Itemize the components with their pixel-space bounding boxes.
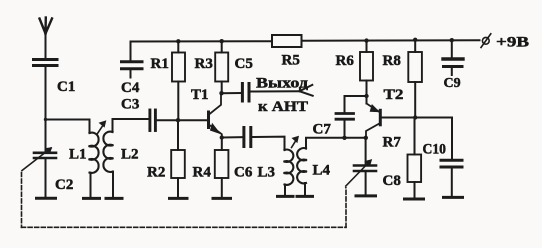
- svg-text:R4: R4: [193, 165, 212, 181]
- trimmer capacitor C8: [346, 138, 401, 189]
- inductor L2: [103, 132, 138, 172]
- svg-text:T2: T2: [384, 87, 404, 103]
- svg-text:L1: L1: [69, 147, 87, 163]
- capacitor C5: [222, 56, 253, 101]
- capacitor C3: [121, 97, 155, 131]
- svg-text:+9В: +9В: [496, 35, 529, 51]
- resistor R8: [383, 38, 422, 118]
- svg-text:C1: C1: [57, 79, 75, 95]
- svg-text:R8: R8: [383, 53, 401, 69]
- svg-text:C8: C8: [383, 173, 401, 189]
- capacitor C4: [121, 42, 142, 97]
- transistor T2: [366, 87, 415, 138]
- svg-text:R1: R1: [151, 56, 169, 72]
- dashed gang line C2 to C8: [22, 173, 347, 228]
- output fork to antenna: [251, 76, 313, 116]
- resistor R4: [193, 138, 229, 198]
- capacitor C1: [34, 60, 76, 96]
- svg-text:C9: C9: [444, 76, 461, 91]
- wire C6 to L3: [252, 137, 284, 150]
- ground under C2: [37, 159, 56, 198]
- svg-text:C6: C6: [234, 165, 253, 181]
- svg-text:C7: C7: [313, 122, 332, 138]
- svg-text:к АНТ: к АНТ: [258, 99, 308, 115]
- tuning arrow L3-L4: [292, 137, 299, 148]
- ground under L3: [278, 185, 294, 197]
- ground under R7: [405, 198, 424, 201]
- svg-text:C3: C3: [121, 97, 139, 113]
- node dot R6/C7/T2 emitter: [364, 94, 368, 98]
- wire C3 to T1 base: [157, 119, 208, 121]
- power rail left section: [131, 40, 273, 42]
- node dot T1 emitter/C6/R4: [220, 135, 224, 139]
- node dot T2 base/R8/R7: [413, 115, 417, 119]
- resistor R1: [151, 39, 186, 120]
- ground under C8: [356, 172, 376, 196]
- tuning arrow L1-L2: [98, 121, 106, 133]
- svg-text:L2: L2: [121, 147, 139, 163]
- capacitor C9: [443, 38, 463, 91]
- power rail right section: [302, 39, 480, 42]
- resistor R3: [195, 39, 229, 93]
- capacitor C7: [313, 96, 367, 138]
- svg-text:C2: C2: [55, 177, 73, 193]
- power terminal +9V: [481, 34, 529, 51]
- wire L2 to C3: [113, 119, 150, 132]
- svg-text:C4: C4: [121, 80, 140, 96]
- ground under L4: [297, 183, 313, 196]
- resistor R2: [147, 120, 185, 197]
- inductor L4: [297, 148, 330, 183]
- wire L4 top to C8/T2 node: [306, 138, 366, 149]
- wire base node to C9/C10 corner: [415, 117, 452, 119]
- node dot R1/R2/base wire: [176, 118, 180, 122]
- svg-text:R5: R5: [282, 53, 300, 69]
- node junction antenna/L1/C2: [44, 118, 47, 121]
- resistor R5 (series in rail): [272, 35, 302, 69]
- capacitor C6: [222, 128, 253, 181]
- wire C1 to node: [45, 67, 47, 120]
- ground under L2: [106, 172, 122, 199]
- trimmer capacitor C2: [22, 120, 73, 194]
- inductor L1: [69, 133, 99, 173]
- node dot C7 bottom: [342, 136, 346, 140]
- svg-text:R2: R2: [147, 165, 165, 181]
- svg-text:Выход: Выход: [256, 76, 308, 92]
- antenna: [40, 18, 53, 59]
- resistor R6: [336, 38, 374, 96]
- node dot T2 collector/C8/L4 wire: [364, 136, 368, 140]
- transistor T1: [191, 87, 222, 138]
- svg-text:R3: R3: [195, 56, 213, 72]
- node dot R3/T1 collector/C5: [219, 91, 223, 95]
- inductor L3: [258, 150, 294, 185]
- svg-text:T1: T1: [191, 87, 209, 103]
- wire node to L1 top: [46, 120, 90, 134]
- ground under R2: [170, 197, 188, 200]
- svg-text:R7: R7: [383, 135, 402, 151]
- svg-text:L3: L3: [258, 165, 276, 181]
- resistor R7: [383, 118, 422, 198]
- svg-text:C10: C10: [423, 142, 447, 158]
- svg-text:L4: L4: [313, 163, 331, 179]
- svg-text:R6: R6: [336, 53, 355, 69]
- ground under L1: [84, 173, 100, 199]
- capacitor C10: [423, 118, 463, 197]
- svg-text:C5: C5: [235, 56, 253, 72]
- ground under R4: [213, 197, 231, 200]
- ground under C10: [444, 196, 463, 199]
